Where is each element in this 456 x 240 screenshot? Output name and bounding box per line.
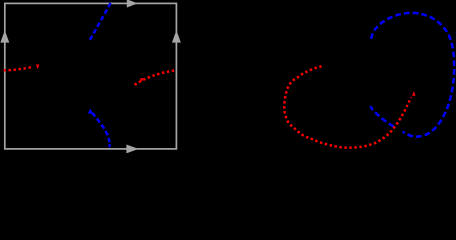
red curve a, right arc in square <box>135 70 177 85</box>
blue arrowhead at bottom edge (down) <box>108 144 112 148</box>
blue curve b, lower arc in square <box>92 113 110 147</box>
blue arrowhead on lower arc (up) <box>88 109 93 114</box>
top edge arrow (right) <box>127 0 138 8</box>
left edge arrow (up) <box>0 30 9 42</box>
red arrowhead on torus cycle (up) <box>412 91 415 96</box>
red arrowhead on right arc <box>140 78 144 82</box>
blue cycle on torus, short arc before red crossing <box>370 106 393 126</box>
fundamental square outline <box>5 3 177 149</box>
red cycle on torus, visible arc <box>284 66 411 147</box>
bottom edge arrow (right) <box>126 145 138 154</box>
blue cycle on torus, main arc (top/right/bottom) <box>371 13 454 137</box>
red curve a, left arc in square <box>4 67 34 71</box>
blue curve b, upper arc in square <box>89 3 110 41</box>
right edge arrow (up) <box>172 30 181 42</box>
red arrowhead on left arc <box>36 65 40 70</box>
